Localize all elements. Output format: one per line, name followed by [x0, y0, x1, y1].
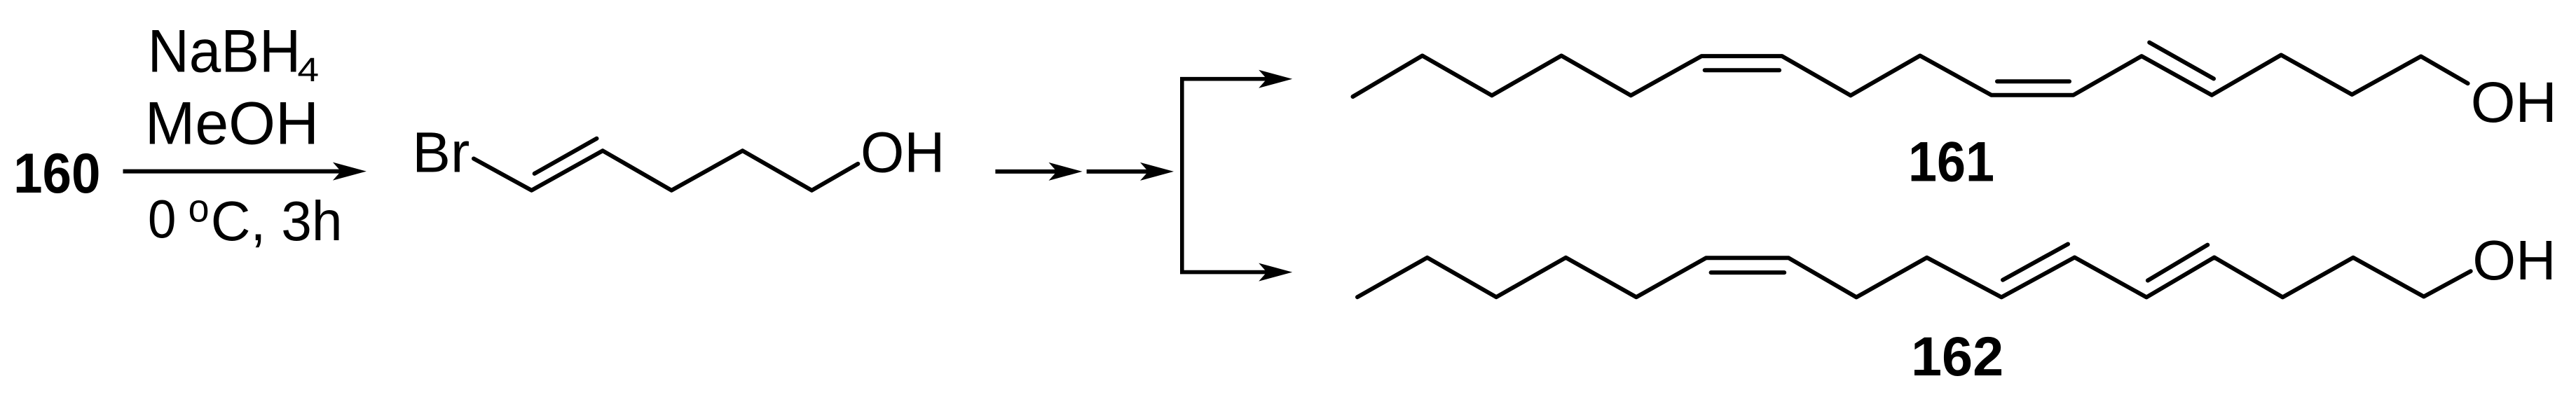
wire: mid arrow 1 stem [995, 169, 1058, 174]
double bond cis second line (162) [1711, 270, 1785, 275]
arrowhead: bracket top [1259, 70, 1292, 88]
arrowhead: reaction arrow [333, 162, 366, 181]
svg-text:160: 160 [13, 142, 100, 205]
wire: mid arrow 2 stem [1087, 169, 1149, 174]
svg-text:C, 3h: C, 3h [211, 190, 343, 252]
molecule 161 chain [1353, 55, 2468, 97]
svg-text:OH: OH [2472, 228, 2556, 291]
svg-text:0: 0 [148, 190, 176, 250]
wire: reaction arrow stem [123, 169, 343, 174]
arrowhead: bracket bottom [1259, 263, 1292, 282]
svg-text:161: 161 [1908, 131, 1994, 194]
svg-text:4: 4 [297, 52, 319, 89]
svg-text:162: 162 [1911, 326, 2003, 387]
arrowhead: mid arrow 2 [1140, 162, 1174, 181]
svg-text:Br: Br [412, 121, 470, 185]
double bond cis1 second line (161) [1705, 68, 1779, 72]
wire: bracket with top and bottom arrow stems [1182, 79, 1267, 272]
svg-text:o: o [189, 186, 210, 231]
molecule: bromo pentenol chain [474, 151, 858, 190]
double bond second line (molecule A) [535, 139, 597, 174]
svg-text:MeOH: MeOH [145, 90, 319, 158]
double bond trans second line (161) [2149, 43, 2214, 79]
double bond trans1 second line (162) [2003, 244, 2068, 280]
svg-text:NaBH: NaBH [148, 18, 301, 85]
arrowhead: mid arrow 1 [1049, 162, 1083, 181]
double bond trans2 second line (162) [2148, 245, 2207, 281]
svg-text:OH: OH [861, 121, 945, 185]
molecule 162 chain [1357, 258, 2471, 298]
svg-text:OH: OH [2471, 71, 2557, 134]
double bond cis2 second line (161) [1997, 79, 2069, 83]
